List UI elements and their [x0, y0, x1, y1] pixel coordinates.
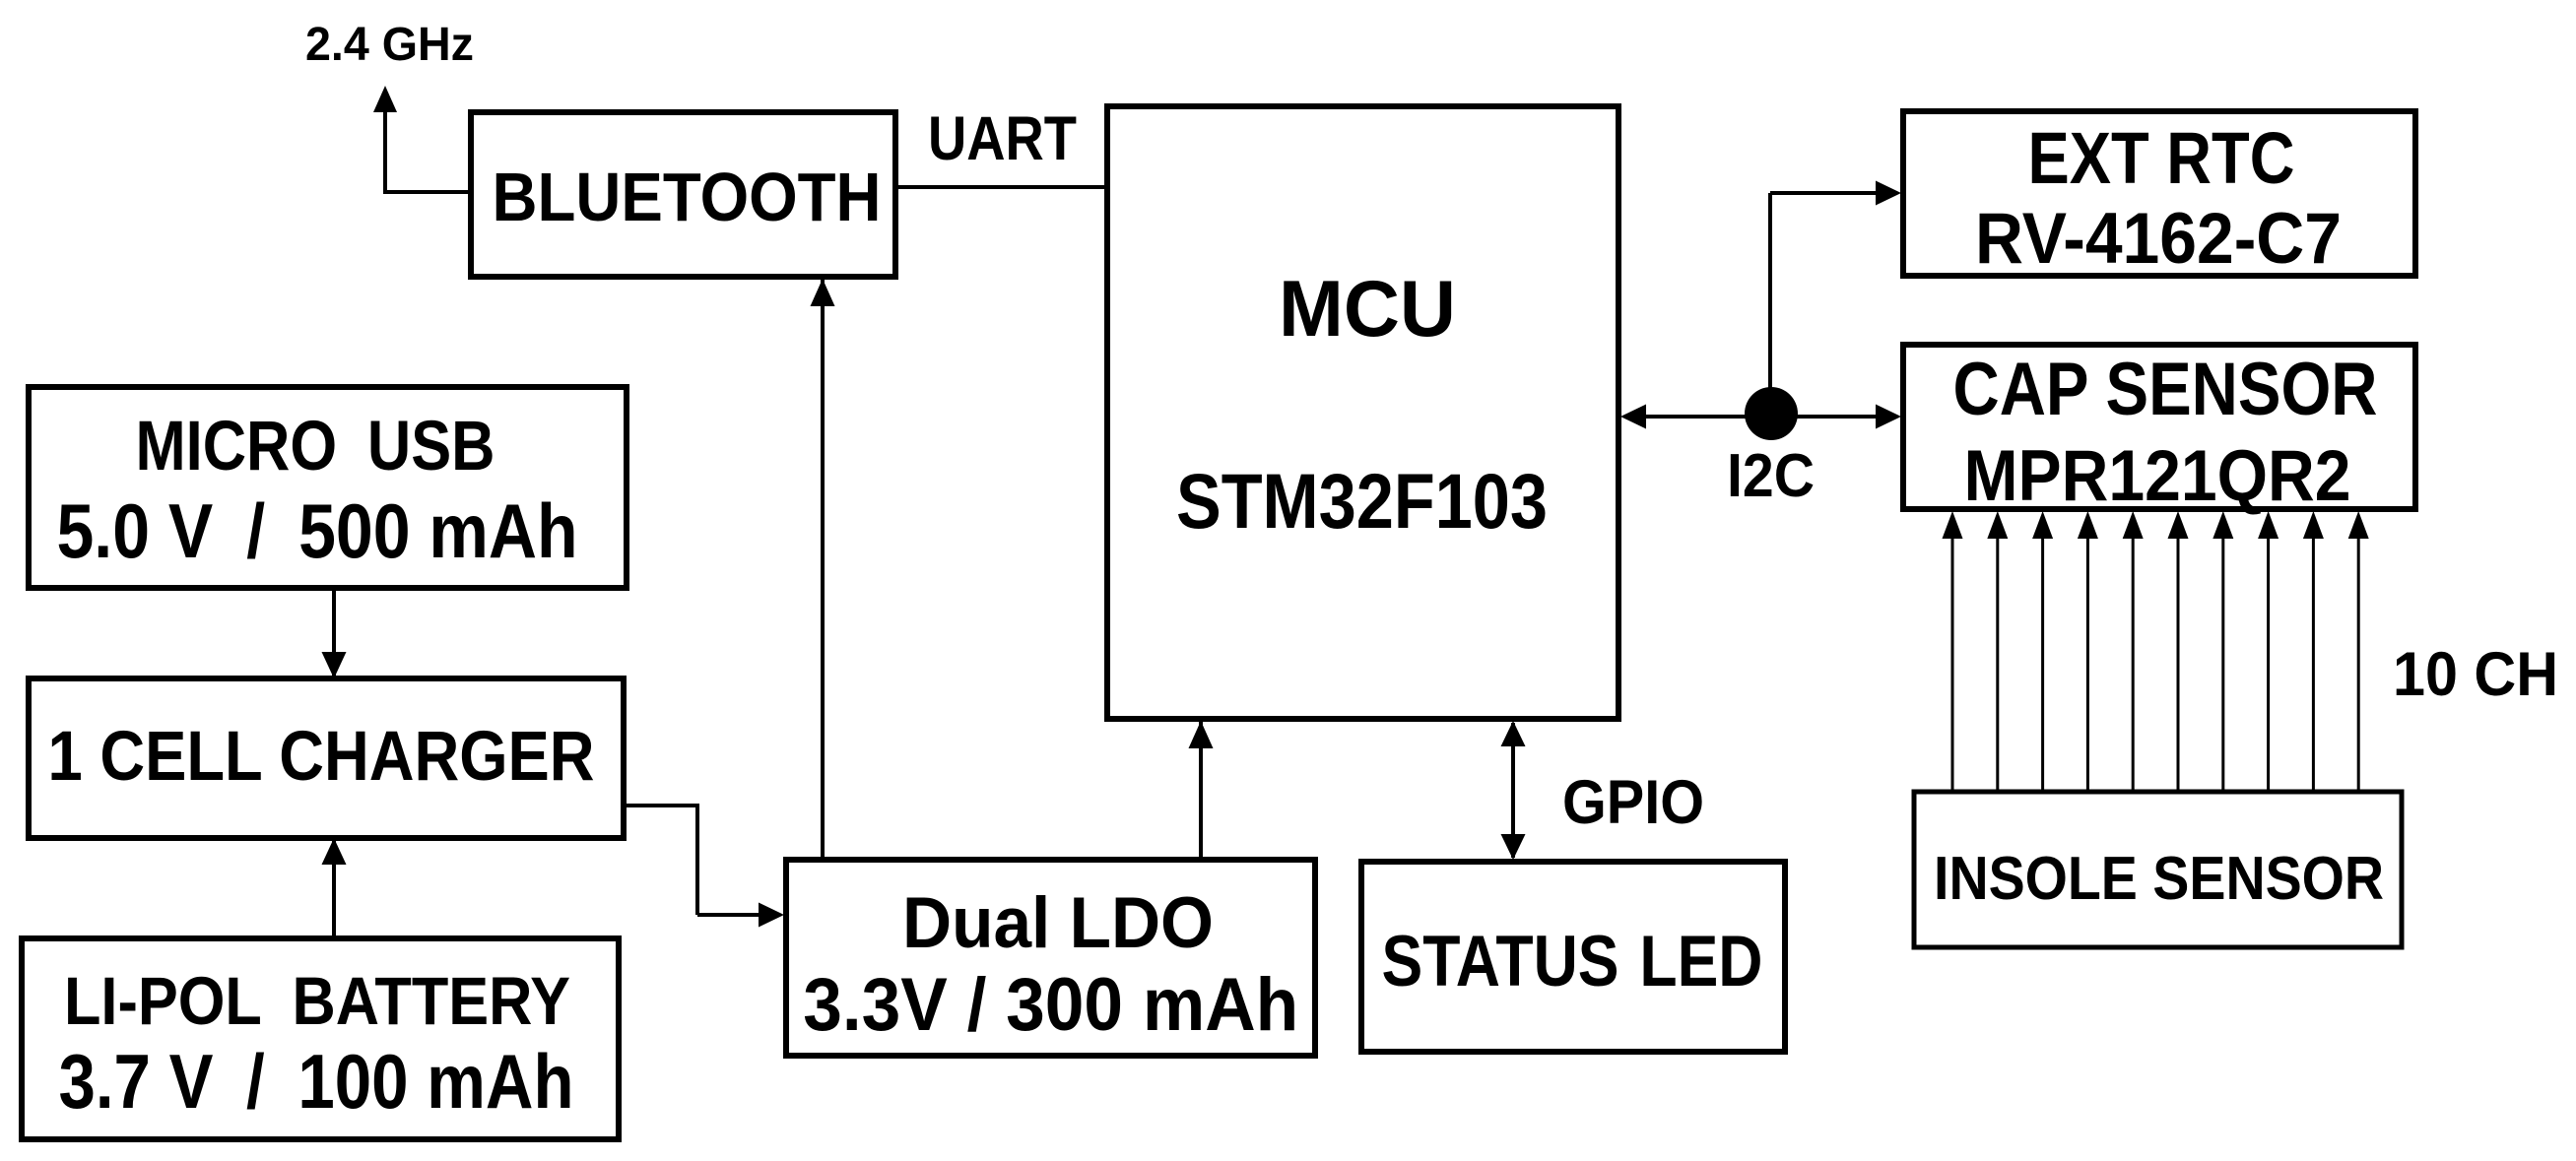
svg-text:STM32F103: STM32F103 [1176, 458, 1548, 545]
svg-text:3.7 V / 100 mAh: 3.7 V / 100 mAh [59, 1040, 574, 1125]
wire 1 CELL CHARGER to Dual LDO [622, 806, 784, 928]
svg-text:LI-POL BATTERY: LI-POL BATTERY [64, 963, 570, 1039]
svg-text:CAP SENSOR: CAP SENSOR [1953, 348, 2378, 431]
box LI-POL BATTERY [22, 938, 619, 1139]
box EXT RTC RV-4162-C7 [1903, 111, 2415, 276]
text BLUETOOTH [493, 159, 882, 235]
text INSOLE SENSOR [1934, 845, 2384, 913]
text RV-4162-C7 [1975, 198, 2342, 279]
svg-text:I2C: I2C [1727, 442, 1815, 510]
svg-text:EXT RTC: EXT RTC [2028, 116, 2295, 199]
box STATUS LED [1361, 862, 1785, 1052]
junction I2C node dot [1745, 387, 1798, 440]
box CAP SENSOR MPR121QR2 [1903, 345, 2415, 509]
text STM32F103 [1176, 458, 1548, 545]
text MCU [1279, 265, 1456, 354]
svg-text:MICRO USB: MICRO USB [136, 407, 495, 485]
wire power Dual LDO to BLUETOOTH [811, 279, 835, 862]
box MICRO USB [29, 387, 627, 588]
box Dual LDO [786, 860, 1315, 1056]
wire MICRO USB to 1 CELL CHARGER [322, 586, 347, 678]
box MCU U1 STM32F103 [1107, 106, 1618, 719]
label I2C [1727, 442, 1815, 510]
wire I2C branch to EXT RTC [1770, 181, 1901, 418]
svg-text:GPIO: GPIO [1562, 768, 1704, 837]
text 3.3V / 300 mAh [803, 963, 1298, 1047]
text 3.7 V / 100 mAh [59, 1040, 574, 1125]
svg-text:INSOLE SENSOR: INSOLE SENSOR [1934, 845, 2384, 913]
svg-text:2.4 GHz: 2.4 GHz [305, 19, 474, 71]
svg-text:10 CH: 10 CH [2393, 640, 2558, 709]
box INSOLE SENSOR [1914, 792, 2402, 947]
box BLUETOOTH module [471, 112, 895, 277]
wire UART BLUETOOTH to MCU [893, 185, 1109, 189]
label UART [928, 104, 1077, 173]
text STATUS LED [1382, 921, 1763, 1001]
svg-text:Dual LDO: Dual LDO [902, 882, 1214, 963]
label 10 CH [2393, 640, 2558, 709]
svg-text:MPR121QR2: MPR121QR2 [1964, 435, 2351, 516]
text CAP SENSOR [1953, 348, 2378, 431]
wire GPIO MCU to STATUS LED bidirectional [1501, 721, 1526, 860]
text 1 CELL CHARGER [48, 717, 595, 796]
svg-text:3.3V / 300 mAh: 3.3V / 300 mAh [803, 963, 1298, 1047]
text LI-POL BATTERY [64, 963, 570, 1039]
svg-text:UART: UART [928, 104, 1077, 173]
text 5.0 V / 500 mAh [57, 489, 578, 574]
box 1 CELL CHARGER [29, 678, 624, 838]
text EXT RTC [2028, 116, 2295, 199]
svg-text:RV-4162-C7: RV-4162-C7 [1975, 198, 2342, 279]
wire I2C bus MCU to CAP SENSOR bidirectional [1620, 405, 1901, 429]
text MICRO USB [136, 407, 495, 485]
wire power Dual LDO to MCU [1189, 721, 1214, 862]
svg-text:5.0 V / 500 mAh: 5.0 V / 500 mAh [57, 489, 578, 574]
svg-text:STATUS LED: STATUS LED [1382, 921, 1763, 1001]
wires 10 channel INSOLE SENSOR to CAP SENSOR [1943, 511, 2369, 794]
text MPR121QR2 [1964, 435, 2351, 516]
wire antenna from BLUETOOTH left [385, 108, 473, 194]
svg-text:1 CELL CHARGER: 1 CELL CHARGER [48, 717, 595, 796]
wire LI-POL BATTERY to 1 CELL CHARGER [322, 838, 347, 940]
text Dual LDO [902, 882, 1214, 963]
svg-text:MCU: MCU [1279, 265, 1456, 354]
arrowhead antenna 2.4 GHz [373, 86, 397, 112]
label 2.4 GHz [305, 19, 474, 71]
svg-text:BLUETOOTH: BLUETOOTH [493, 159, 882, 235]
label GPIO [1562, 768, 1704, 837]
